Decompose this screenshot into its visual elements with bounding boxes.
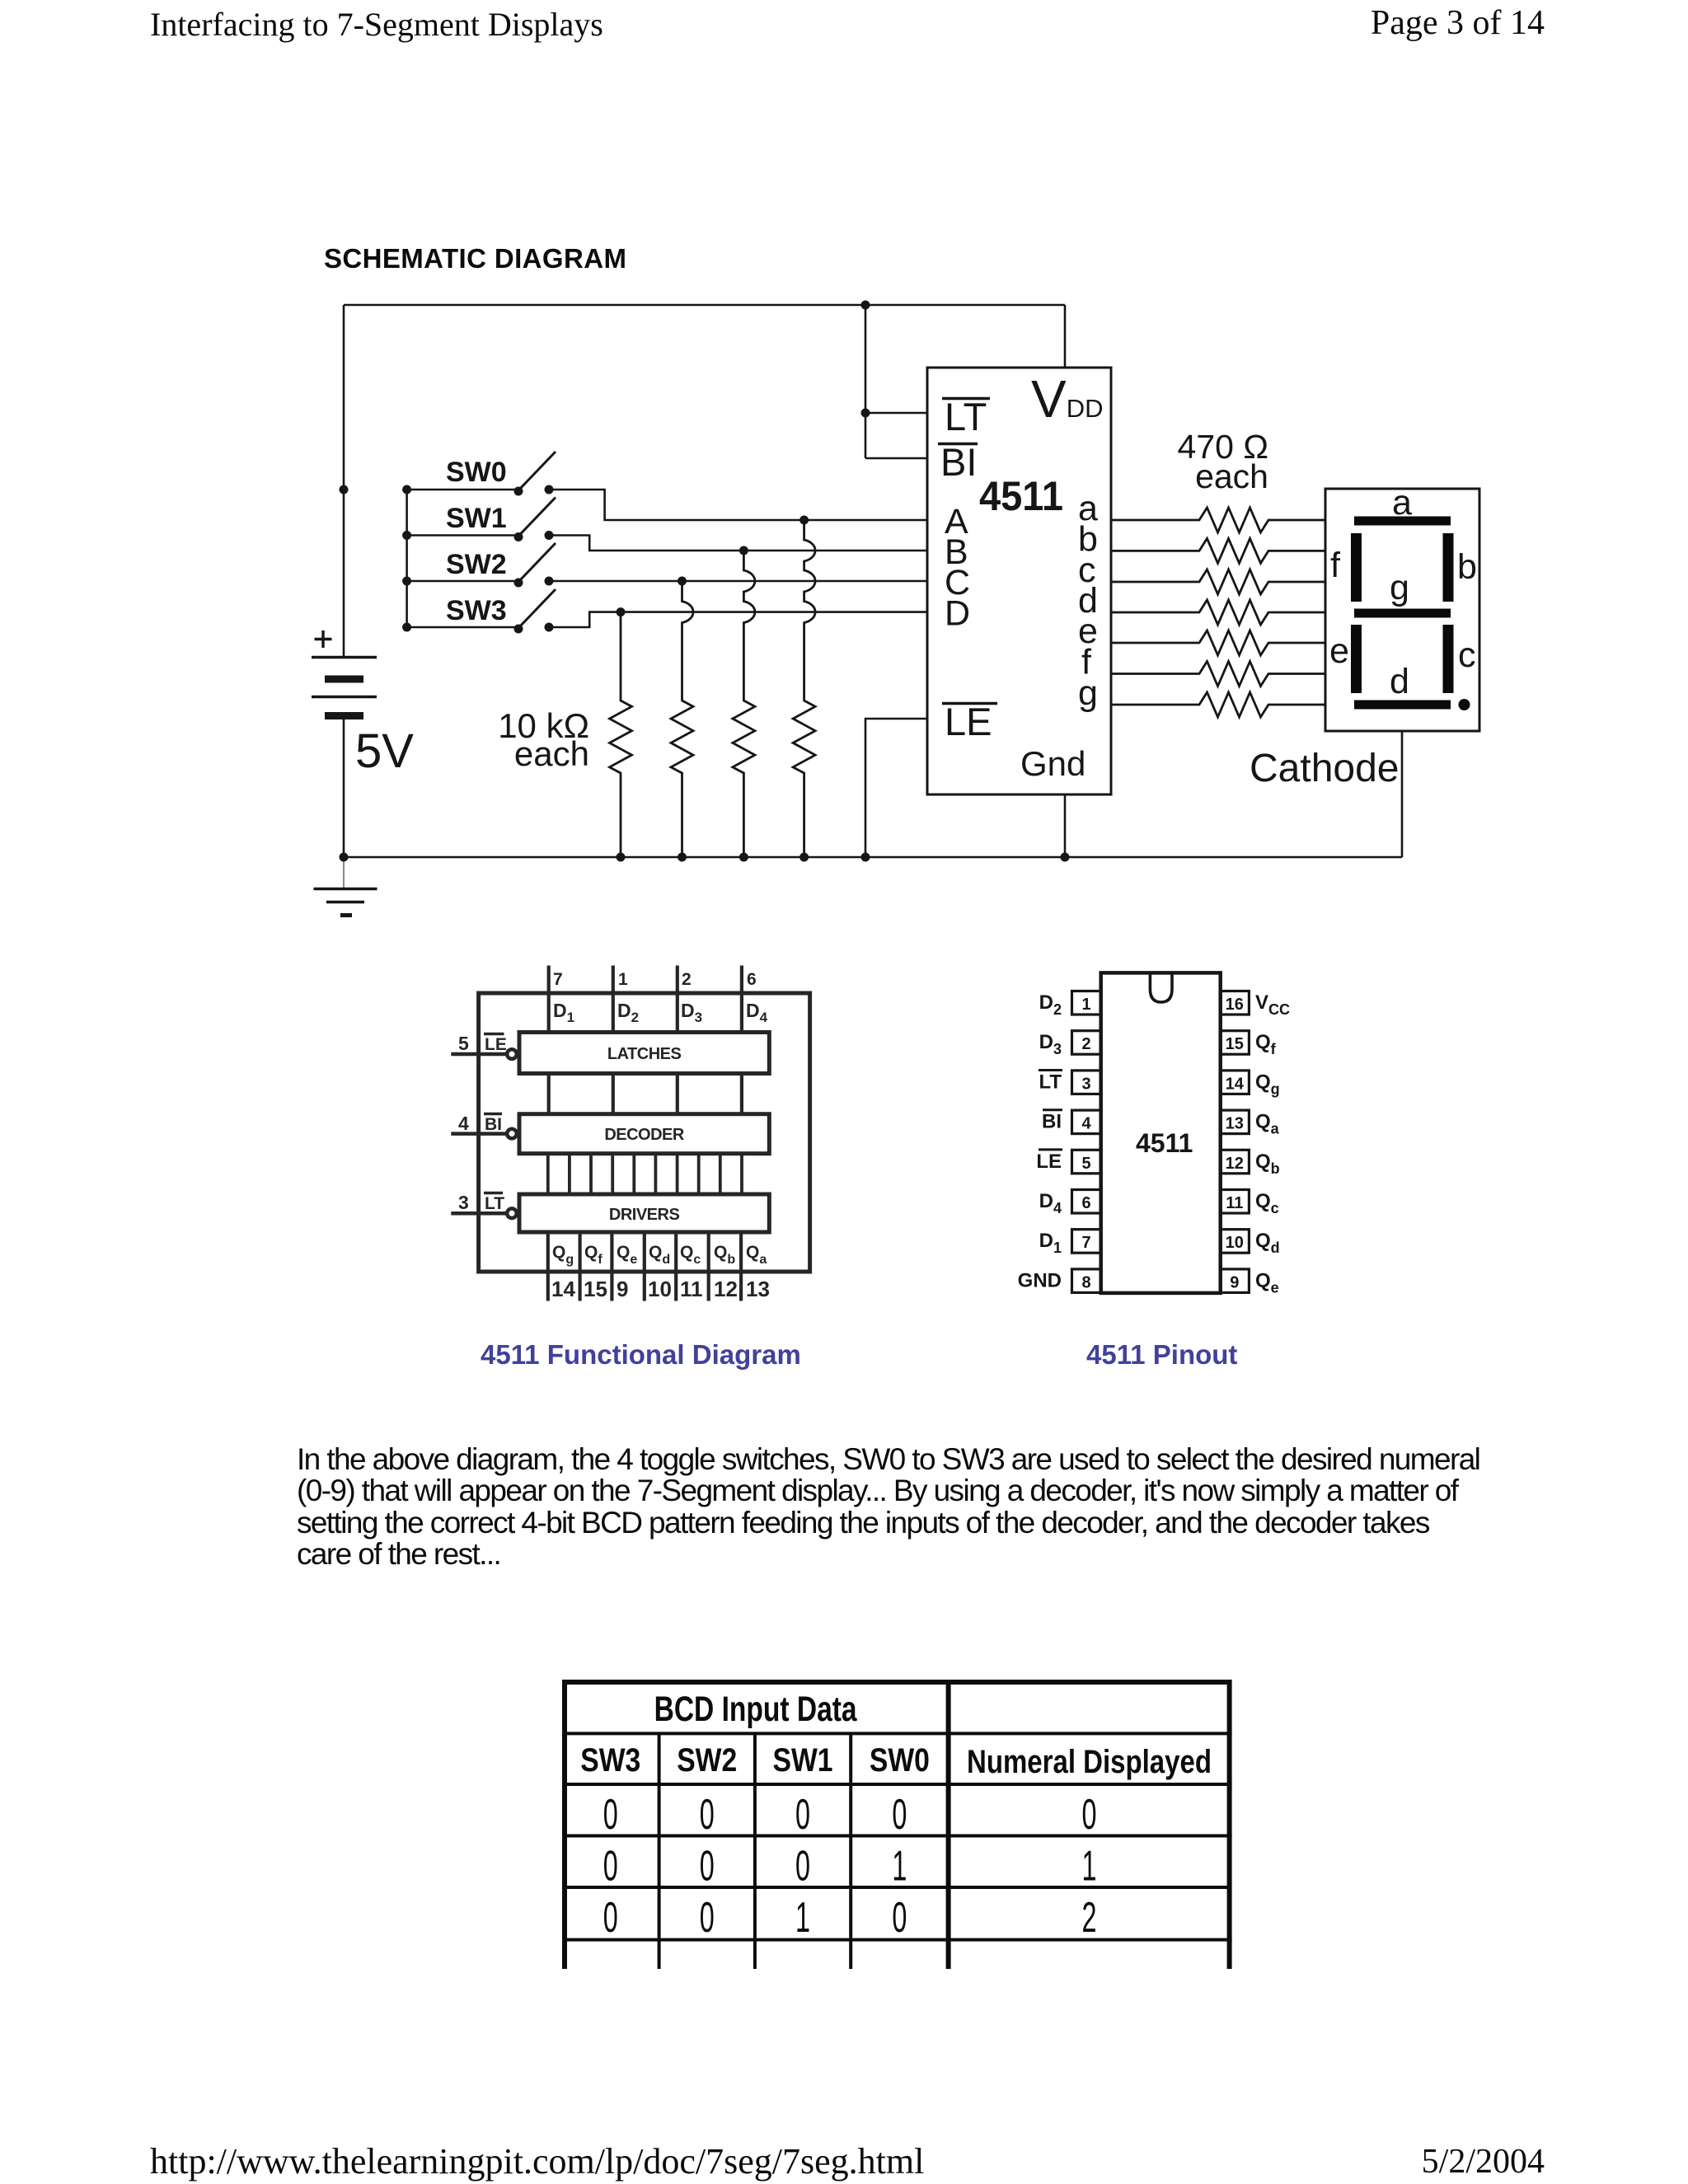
BI label with overline (484, 1114, 502, 1135)
wire switch feed bus (406, 490, 408, 627)
switch SW3 lever (518, 589, 556, 628)
SW0 throw contact (545, 485, 554, 494)
wire battery to ground rail (343, 716, 345, 857)
junction node feed bus SW1 (402, 531, 411, 540)
svg-text:BCD Input Data: BCD Input Data (654, 1690, 858, 1729)
driver output lines Qg-Qa (548, 1232, 741, 1301)
battery plus terminal label (315, 630, 332, 648)
functional outer box (479, 993, 810, 1272)
svg-text:0: 0 (700, 1894, 715, 1942)
wire LT/BI bus drop (865, 305, 867, 458)
SW0 pole contact (514, 487, 523, 496)
display segment g (1354, 609, 1451, 618)
junction node rail R2 (678, 853, 687, 862)
BI pin label (938, 440, 978, 484)
wire and resistor Rc (1111, 569, 1325, 594)
wire SW3 feed (407, 626, 518, 629)
svg-text:0: 0 (892, 1791, 907, 1839)
table row lines (562, 1733, 1232, 1939)
page footer URL (150, 2140, 924, 2182)
svg-text:0: 0 (603, 1791, 618, 1839)
index notch (1150, 975, 1172, 1003)
wire SW2 feed (407, 580, 518, 583)
right pin labels (1255, 991, 1290, 1296)
junction node rail LE (861, 853, 870, 862)
svg-text:0: 0 (1082, 1791, 1097, 1839)
wire SW1 output to B (549, 536, 927, 551)
svg-text:SW2: SW2 (677, 1742, 737, 1779)
BI input line pin 4 (451, 1132, 505, 1136)
table column group divider (946, 1680, 951, 1969)
display segment a (1354, 517, 1451, 526)
wire top supply rail (344, 304, 1065, 307)
junction node D line / R1 (617, 607, 626, 616)
table row 1 values (603, 1791, 1097, 1839)
table column lines (659, 1733, 851, 1969)
LT label with overline (484, 1193, 504, 1214)
junction node LT tap (861, 409, 870, 418)
input pin lines D1-D4 (549, 966, 742, 1033)
DRIVERS block (519, 1194, 769, 1232)
IC U1 4511 body (927, 368, 1111, 794)
junction node rail R3 (739, 853, 748, 862)
LE label with overline (484, 1034, 507, 1055)
display decimal point (1459, 699, 1470, 710)
left pin labels (1018, 991, 1062, 1291)
SW1 pole contact (514, 532, 523, 541)
LE input line pin 5 (451, 1052, 505, 1057)
svg-text:0: 0 (603, 1894, 618, 1942)
left pin label overlines (1039, 1071, 1062, 1150)
wire and resistor Ra (1111, 508, 1325, 532)
wire LE tap to ground (865, 719, 927, 857)
section heading (324, 243, 626, 274)
paragraph text (297, 1444, 1615, 1571)
display segment labels (1329, 483, 1477, 701)
output labels Qg-Qa (552, 1243, 767, 1267)
wire SW1 feed (407, 534, 518, 537)
wire left supply bus (343, 305, 345, 657)
pulldown value label 10 kOhm each (498, 706, 589, 773)
junction node top rail / LT-BI bus (861, 301, 870, 310)
junction node feed bus SW2 (402, 577, 411, 586)
wire and resistor Rb (1111, 538, 1325, 563)
wire SW0 feed (407, 489, 518, 491)
latches to decoder lines (549, 1074, 742, 1114)
junction node left bus / SW0 (340, 485, 349, 494)
wire SW3 output to D (549, 612, 927, 627)
SW1 throw contact (545, 531, 554, 540)
display segment e (1351, 625, 1362, 693)
resistor R4 10k pulldown (793, 520, 815, 857)
top pin numbers 7 1 2 6 (553, 970, 757, 989)
LT pin label (942, 395, 990, 438)
junction node rail Gnd pin (1061, 853, 1070, 862)
wire and resistor Re (1111, 630, 1325, 655)
page header left (150, 5, 603, 44)
svg-text:1: 1 (892, 1843, 907, 1891)
segment wires and resistors 470 ohm (1111, 508, 1325, 717)
wire and resistor Rd (1111, 600, 1325, 625)
page header right (1371, 3, 1545, 43)
4511 pinout diagram (1072, 972, 1250, 1293)
input pin labels A B C D (945, 502, 970, 634)
switch SW1 lever (518, 498, 556, 537)
junction node rail R4 (799, 853, 809, 862)
BI inverter bubble (507, 1129, 517, 1139)
resistor R2 10k pulldown (671, 581, 693, 857)
LE inverter bubble (507, 1049, 517, 1059)
wire and resistor Rf (1111, 662, 1325, 687)
svg-text:2: 2 (1082, 1894, 1097, 1942)
right pin numbers (1226, 996, 1245, 1291)
SW2 throw contact (545, 577, 554, 586)
wire Gnd pin drop (1064, 794, 1067, 857)
battery BT1 5V (312, 658, 377, 716)
series resistor value label 470 ohm each (1178, 428, 1268, 495)
switch SW2 lever (518, 543, 556, 582)
table outer border (565, 1680, 1230, 1969)
left pin boxes 1-8 (1072, 991, 1101, 1293)
wire LT tap (865, 412, 927, 415)
junction node B line / R3 (739, 546, 748, 555)
wire and resistor Rg (1111, 692, 1325, 717)
decoder to drivers lines (548, 1154, 742, 1194)
svg-text:0: 0 (700, 1843, 715, 1891)
svg-text:1: 1 (795, 1894, 810, 1942)
junction node feed bus SW3 (402, 623, 411, 632)
bottom pin numbers 14 15 9 10 11 12 13 (551, 1277, 770, 1301)
svg-text:1: 1 (1082, 1843, 1097, 1891)
svg-text:SW1: SW1 (773, 1742, 833, 1779)
left pin numbers (1081, 996, 1091, 1291)
display segment f (1351, 533, 1362, 602)
display segment b (1443, 533, 1454, 602)
LT inverter bubble (507, 1208, 517, 1218)
display segment d (1354, 701, 1451, 710)
svg-text:0: 0 (795, 1791, 810, 1839)
junction node feed bus SW0 (402, 485, 411, 494)
junction node rail at battery (340, 853, 349, 862)
junction node C line / R2 (678, 577, 687, 586)
wire SW2 output to C (549, 580, 927, 583)
switch SW0 lever (518, 452, 556, 490)
LATCHES block (519, 1033, 769, 1074)
table row 2 values (603, 1843, 1097, 1891)
LE pin label (942, 700, 997, 743)
svg-text:Numeral Displayed: Numeral Displayed (967, 1744, 1212, 1780)
ground symbol (314, 857, 377, 916)
D1-D4 labels (553, 1000, 768, 1025)
svg-text:SW3: SW3 (580, 1742, 640, 1779)
svg-text:0: 0 (700, 1791, 715, 1839)
LT input line pin 3 (451, 1212, 505, 1216)
wire BI tap (865, 457, 927, 460)
junction node A line / R4 (799, 516, 809, 525)
SW3 throw contact (545, 623, 554, 632)
svg-text:0: 0 (892, 1894, 907, 1942)
page footer date (1422, 2142, 1545, 2182)
display segment c (1443, 625, 1454, 693)
wire bottom ground rail (344, 856, 1402, 859)
svg-text:SW0: SW0 (870, 1742, 930, 1779)
table row 3 values (603, 1894, 1097, 1942)
right pin boxes 9-16 (1220, 991, 1249, 1293)
svg-text:0: 0 (795, 1843, 810, 1891)
wire SW0 output to A (549, 490, 927, 520)
7-segment display body (1325, 489, 1479, 731)
SW2 pole contact (514, 579, 523, 588)
SW3 pole contact (514, 625, 523, 634)
resistor R3 10k pulldown (733, 551, 755, 857)
resistor R1 10k pulldown (610, 612, 632, 857)
wire cathode drop (1401, 731, 1404, 857)
DIP package body (1101, 972, 1221, 1293)
wire VDD drop to 4511 (1064, 305, 1067, 368)
junction node rail R1 (617, 853, 626, 862)
output pin labels a-g (1078, 489, 1098, 713)
DECODER block (519, 1114, 769, 1154)
svg-text:0: 0 (603, 1843, 618, 1891)
